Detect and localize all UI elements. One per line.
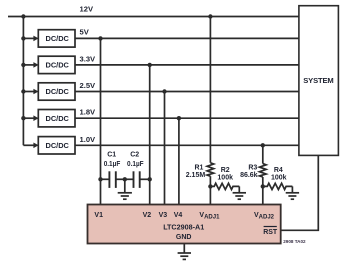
resistor R3 zigzag: [260, 164, 267, 177]
wire R1 bottom to pin VADJ1: [209, 176, 211, 204]
svg-text:100k: 100k: [271, 175, 287, 182]
svg-text:R4: R4: [274, 167, 283, 174]
svg-text:V1: V1: [94, 212, 103, 219]
wire IC GND pin stub: [183, 244, 185, 253]
wire R4 ground stub: [291, 186, 293, 192]
svg-text:0.1µF: 0.1µF: [104, 161, 121, 168]
node 2.5V tap: [162, 89, 166, 93]
wire V1 sense line 5V to pin V1: [100, 38, 102, 204]
wire 12V to R1 top: [209, 17, 211, 163]
arrowhead into DC/DC 1.8V: [33, 115, 38, 121]
svg-text:R1: R1: [194, 165, 203, 172]
capacitor C2 plates: [133, 171, 135, 188]
svg-text:LTC2908-A1: LTC2908-A1: [163, 223, 204, 232]
node bus row 5V: [21, 36, 25, 40]
wire 1.0V to R3 top: [262, 145, 264, 163]
converter DC/DC 1.8V: [38, 110, 75, 127]
node C1 left: [98, 177, 102, 181]
wire ground node to C2: [125, 178, 134, 180]
node 12V R1 tap: [208, 14, 212, 18]
wire R3 bottom to pin VADJ2: [262, 177, 264, 205]
svg-text:DC/DC: DC/DC: [45, 141, 69, 150]
wire cap row left (V1 line to C1): [101, 178, 110, 180]
node 1.0V R3 tap: [261, 143, 265, 147]
wire DC/DC input stub 1.8V: [23, 117, 34, 119]
converter DC/DC 3.3V: [38, 56, 75, 73]
svg-text:R3: R3: [248, 165, 257, 172]
ground (R4): [286, 193, 299, 199]
wire DC/DC input stub 2.5V: [23, 91, 34, 93]
svg-text:12V: 12V: [80, 5, 94, 14]
svg-text:SYSTEM: SYSTEM: [303, 76, 333, 85]
svg-text:DC/DC: DC/DC: [45, 61, 69, 70]
svg-text:2908 TA02: 2908 TA02: [283, 239, 306, 244]
ground (capacitor node): [118, 193, 132, 199]
wire capacitor ground stub: [124, 179, 126, 192]
converter DC/DC 2.5V: [38, 83, 75, 100]
svg-text:0.1µF: 0.1µF: [127, 161, 144, 168]
ground (IC GND pin): [178, 253, 191, 259]
block SYSTEM: [299, 6, 339, 156]
wire 3.3V rail: [75, 64, 299, 66]
node bus row 3.3V: [21, 63, 25, 67]
svg-text:100k: 100k: [217, 175, 233, 182]
wire DC/DC input stub 1.0V: [23, 144, 34, 146]
wire left input bus: [22, 17, 24, 146]
svg-text:V2: V2: [143, 212, 152, 219]
node VADJ2 divider: [261, 184, 265, 188]
svg-text:C1: C1: [107, 151, 116, 158]
node 3.3V tap: [148, 63, 152, 67]
svg-text:R2: R2: [221, 167, 230, 174]
wire V2 sense line 3.3V to pin V2: [149, 65, 151, 205]
wire V4 sense line 1.8V to pin V4: [178, 118, 180, 204]
svg-text:3.3V: 3.3V: [80, 54, 97, 63]
svg-text:1.8V: 1.8V: [80, 108, 97, 117]
wire 12V rail: [8, 16, 299, 18]
svg-text:DC/DC: DC/DC: [45, 87, 69, 96]
arrowhead into DC/DC 5V: [33, 36, 38, 42]
wire C1 to ground node: [116, 178, 125, 180]
svg-text:C2: C2: [130, 151, 139, 158]
arrowhead into DC/DC 2.5V: [33, 89, 38, 95]
resistor R4 zigzag: [263, 183, 293, 189]
svg-text:2.5V: 2.5V: [80, 81, 97, 90]
wire 1.0V rail: [75, 144, 299, 146]
converter DC/DC 1.0V: [38, 137, 75, 154]
arrowhead into DC/DC 3.3V: [33, 62, 38, 68]
svg-text:1.0V: 1.0V: [80, 135, 97, 144]
svg-text:DC/DC: DC/DC: [45, 34, 69, 43]
svg-text:DC/DC: DC/DC: [45, 114, 69, 123]
capacitor C1 plates: [108, 171, 110, 188]
wire 2.5V rail: [75, 91, 299, 93]
wire 1.8V rail: [75, 117, 299, 119]
svg-text:GND: GND: [176, 234, 192, 241]
node C2 right: [148, 177, 152, 181]
wire V3 sense line 2.5V to pin V3: [164, 92, 166, 205]
svg-text:RST: RST: [263, 229, 278, 236]
IC LTC2908-A1 supervisor body: [88, 205, 281, 244]
node capacitor ground: [123, 177, 127, 181]
node bus row 1.8V: [21, 116, 25, 120]
resistor R1 zigzag: [207, 163, 214, 176]
svg-text:5V: 5V: [80, 27, 90, 36]
wire DC/DC input stub 3.3V: [23, 64, 34, 66]
node bus row 2.5V: [21, 89, 25, 93]
svg-text:V3: V3: [159, 212, 168, 219]
node 12V/left bus junction: [21, 14, 25, 18]
resistor R2 zigzag: [210, 183, 239, 189]
svg-text:86.6k: 86.6k: [240, 172, 258, 179]
wire DC/DC input stub 5V: [23, 37, 34, 39]
node 1.8V tap: [177, 116, 181, 120]
node VADJ1 divider: [208, 184, 212, 188]
ground (R2): [233, 193, 246, 199]
wire 5V rail: [75, 37, 299, 39]
svg-text:V4: V4: [174, 212, 183, 219]
node 5V tap: [98, 36, 102, 40]
wire RST from SYSTEM to IC: [281, 155, 319, 230]
wire R2 ground stub: [238, 186, 240, 192]
arrowhead into DC/DC 1.0V: [33, 143, 38, 149]
converter DC/DC 5V: [38, 30, 75, 47]
wire C2 to V2 line: [140, 178, 150, 180]
svg-text:2.15M: 2.15M: [186, 172, 206, 179]
